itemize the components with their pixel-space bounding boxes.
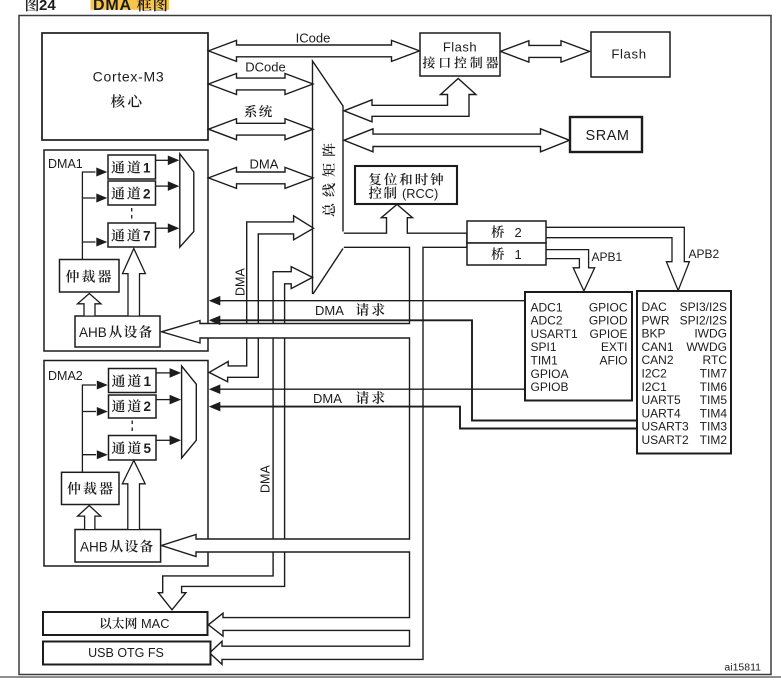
svg-text:WWDG: WWDG xyxy=(686,340,727,354)
svg-text:TIM2: TIM2 xyxy=(700,433,728,447)
dashed ellipsis between DMA2 channels xyxy=(131,421,133,435)
footer rule xyxy=(0,676,781,678)
svg-text:(RCC): (RCC) xyxy=(402,186,438,201)
svg-text:SPI2/I2S: SPI2/I2S xyxy=(680,313,727,327)
svg-text:DMA: DMA xyxy=(234,268,248,296)
svg-text:2: 2 xyxy=(515,225,522,240)
svg-text:TIM6: TIM6 xyxy=(700,380,728,394)
DMA1 controller box xyxy=(44,150,208,351)
svg-text:Flash: Flash xyxy=(611,47,646,62)
svg-text:TIM1: TIM1 xyxy=(531,354,559,368)
svg-text:TIM5: TIM5 xyxy=(700,393,728,407)
svg-text:DMA: DMA xyxy=(259,465,273,493)
wire DMA2 channel1 to mux xyxy=(156,372,170,374)
wire DMA1 arbiter feed to channels xyxy=(82,172,95,260)
svg-text:USART1: USART1 xyxy=(531,327,578,341)
DMA2 arbiter box 仲裁器 xyxy=(62,472,120,504)
DMA1 AHB slave box AHB从设备 xyxy=(75,316,160,347)
svg-text:1: 1 xyxy=(143,160,151,175)
svg-text:AHB: AHB xyxy=(80,539,108,554)
svg-text:AFIO: AFIO xyxy=(599,354,627,368)
RCC box 复位和时钟控制 xyxy=(355,166,457,204)
title text 图24 DMA框图 (cut off at top) xyxy=(26,0,167,14)
arrow DMA2 AHB slave up to mux xyxy=(122,460,145,529)
svg-text:SRAM: SRAM xyxy=(586,128,630,144)
APB1 peripherals text xyxy=(642,300,728,447)
bridge 1 box 桥1 xyxy=(467,243,546,265)
svg-text:1: 1 xyxy=(515,247,522,262)
svg-text:TIM7: TIM7 xyxy=(700,367,728,381)
arrow DMA1 AHB slave to arbiter xyxy=(78,294,102,316)
svg-text:1: 1 xyxy=(144,374,152,389)
svg-text:SPI3/I2S: SPI3/I2S xyxy=(680,300,727,314)
svg-text:2: 2 xyxy=(143,186,151,201)
svg-text:AHB: AHB xyxy=(79,325,107,340)
svg-text:I2C1: I2C1 xyxy=(642,380,668,394)
SRAM box xyxy=(570,117,642,152)
arrow DMA1 AHB slave up to mux xyxy=(123,249,146,316)
svg-text:EXTI: EXTI xyxy=(601,340,628,354)
wire DMA2 channel5 to mux xyxy=(156,439,170,441)
svg-text:TIM3: TIM3 xyxy=(700,420,728,434)
svg-text:USART3: USART3 xyxy=(642,420,689,434)
bus SRAM double arrow xyxy=(344,129,570,152)
wire DMA1 channel7 to mux xyxy=(156,227,170,229)
svg-text:MAC: MAC xyxy=(141,616,169,631)
label 系统 xyxy=(244,105,256,118)
Ethernet MAC box 以太网MAC xyxy=(43,612,208,635)
svg-text:24: 24 xyxy=(39,0,56,14)
svg-text:DMA: DMA xyxy=(313,391,342,406)
svg-text:GPIOB: GPIOB xyxy=(531,380,569,394)
svg-text:DMA: DMA xyxy=(93,0,132,14)
DMA1 channel 7 box 通道7 xyxy=(108,223,156,247)
bus channel: bus matrix to APB bridges, RCC arrow, system trunk down to DMA2 AHB slave, Ethernet MAC and USB OTG arrows xyxy=(162,204,467,664)
svg-text:BKP: BKP xyxy=(642,327,666,341)
svg-text:TIM4: TIM4 xyxy=(700,406,728,420)
svg-text:UART4: UART4 xyxy=(642,406,681,420)
svg-text:DCode: DCode xyxy=(245,60,285,75)
APB2 peripherals text xyxy=(531,300,628,394)
bus channel: bus matrix to flash interface xyxy=(344,79,476,122)
wire DMA1 channel1 to mux xyxy=(156,159,170,161)
svg-text:CAN2: CAN2 xyxy=(642,353,674,367)
flash interface controller box Flash接口控制器 xyxy=(420,33,500,76)
svg-text:DAC: DAC xyxy=(642,300,668,314)
wire DMA2 arbiter feed to channels xyxy=(82,385,96,472)
DMA2 mux trapezoid xyxy=(182,366,197,458)
DMA2 controller box xyxy=(44,361,208,567)
wire APB1 hollow arrow from bridge1 to APB1 peripherals xyxy=(546,250,595,291)
svg-text:USB OTG FS: USB OTG FS xyxy=(88,646,164,660)
wire DMA request line from APB2 peripherals to DMA2 xyxy=(213,388,525,390)
flash memory box xyxy=(591,32,670,77)
DMA2 channel 1 box 通道1 xyxy=(109,369,157,393)
wire DMA request line from APB1 peripherals to DMA1 (routed under peripheral box) xyxy=(214,320,637,420)
bridge 2 box 桥2 xyxy=(467,221,546,243)
wire DMA request line from APB2 peripherals to DMA1 xyxy=(213,300,525,302)
svg-text:I2C2: I2C2 xyxy=(642,367,668,381)
wire DMA request line from APB1 peripherals to DMA2 (routed under peripheral box) xyxy=(214,407,637,429)
svg-text:USART2: USART2 xyxy=(642,433,689,447)
bus channel: DMA2 master port to bus matrix xyxy=(209,216,313,382)
dashed ellipsis between DMA1 channels xyxy=(131,208,133,221)
APB1 peripherals box xyxy=(637,291,731,454)
svg-text:ai15811: ai15811 xyxy=(724,662,761,674)
svg-text:7: 7 xyxy=(143,228,151,243)
svg-text:UART5: UART5 xyxy=(642,393,681,407)
svg-text:SPI1: SPI1 xyxy=(531,340,557,354)
label DMA2 xyxy=(48,369,83,383)
svg-text:IWDG: IWDG xyxy=(694,327,727,341)
svg-text:GPIOC: GPIOC xyxy=(589,300,628,314)
wire APB2 hollow arrow from bridge2 to APB2 peripherals xyxy=(546,227,689,290)
svg-text:CAN1: CAN1 xyxy=(642,340,674,354)
DMA2 channel 2 box 通道2 xyxy=(109,395,157,418)
bus matrix label 总线矩阵 (vertical) xyxy=(322,143,335,216)
svg-text:DMA1: DMA1 xyxy=(48,157,83,171)
label DMA1 xyxy=(48,157,83,171)
svg-text:ADC1: ADC1 xyxy=(531,300,563,314)
svg-text:GPIOD: GPIOD xyxy=(589,314,628,328)
DMA1 channel 1 box 通道1 xyxy=(108,155,156,179)
svg-text:GPIOA: GPIOA xyxy=(531,367,569,381)
svg-text:GPIOE: GPIOE xyxy=(589,327,627,341)
Cortex-M3 core box xyxy=(42,33,208,140)
svg-text:ICode: ICode xyxy=(296,31,331,46)
svg-text:DMA: DMA xyxy=(315,303,344,318)
bus DCode double arrow xyxy=(209,74,314,95)
wire DMA1 channel2 to mux xyxy=(156,185,170,187)
svg-text:PWR: PWR xyxy=(642,313,670,327)
DMA2 channel 5 box 通道5 xyxy=(109,436,157,461)
USB OTG FS box xyxy=(43,642,211,665)
svg-text:RTC: RTC xyxy=(703,353,728,367)
svg-text:Flash: Flash xyxy=(443,40,477,55)
svg-text:APB2: APB2 xyxy=(689,247,720,261)
DMA1 channel 2 box 通道2 xyxy=(108,181,156,205)
svg-text:2: 2 xyxy=(144,399,152,414)
svg-text:Cortex-M3: Cortex-M3 xyxy=(93,69,165,85)
APB2 peripherals box xyxy=(525,292,632,401)
svg-text:DMA2: DMA2 xyxy=(48,369,83,383)
bus flash interface to flash double arrow xyxy=(500,41,589,62)
svg-text:ADC2: ADC2 xyxy=(531,314,563,328)
svg-text:APB1: APB1 xyxy=(592,250,623,264)
title highlight xyxy=(91,0,170,10)
bus DMA1 master double arrow xyxy=(209,167,314,188)
svg-text:DMA: DMA xyxy=(250,157,279,172)
label DMA 请求 (row 1) xyxy=(315,303,384,318)
bus system double arrow xyxy=(209,119,314,140)
bus channel: bus matrix down to DMA1 AHB slave and Ethernet MAC xyxy=(158,267,312,610)
label DMA 请求 (row 2) xyxy=(313,391,384,406)
bus ICode double arrow xyxy=(209,40,420,61)
DMA1 mux trapezoid xyxy=(180,154,194,247)
DMA1 arbiter box 仲裁器 xyxy=(60,260,120,293)
wire DMA2 channel2 to mux xyxy=(156,399,170,401)
svg-text:5: 5 xyxy=(144,441,152,456)
arrow DMA2 AHB slave to arbiter xyxy=(78,506,101,530)
bus matrix shape xyxy=(313,61,344,294)
DMA2 AHB slave box AHB从设备 xyxy=(75,530,161,563)
